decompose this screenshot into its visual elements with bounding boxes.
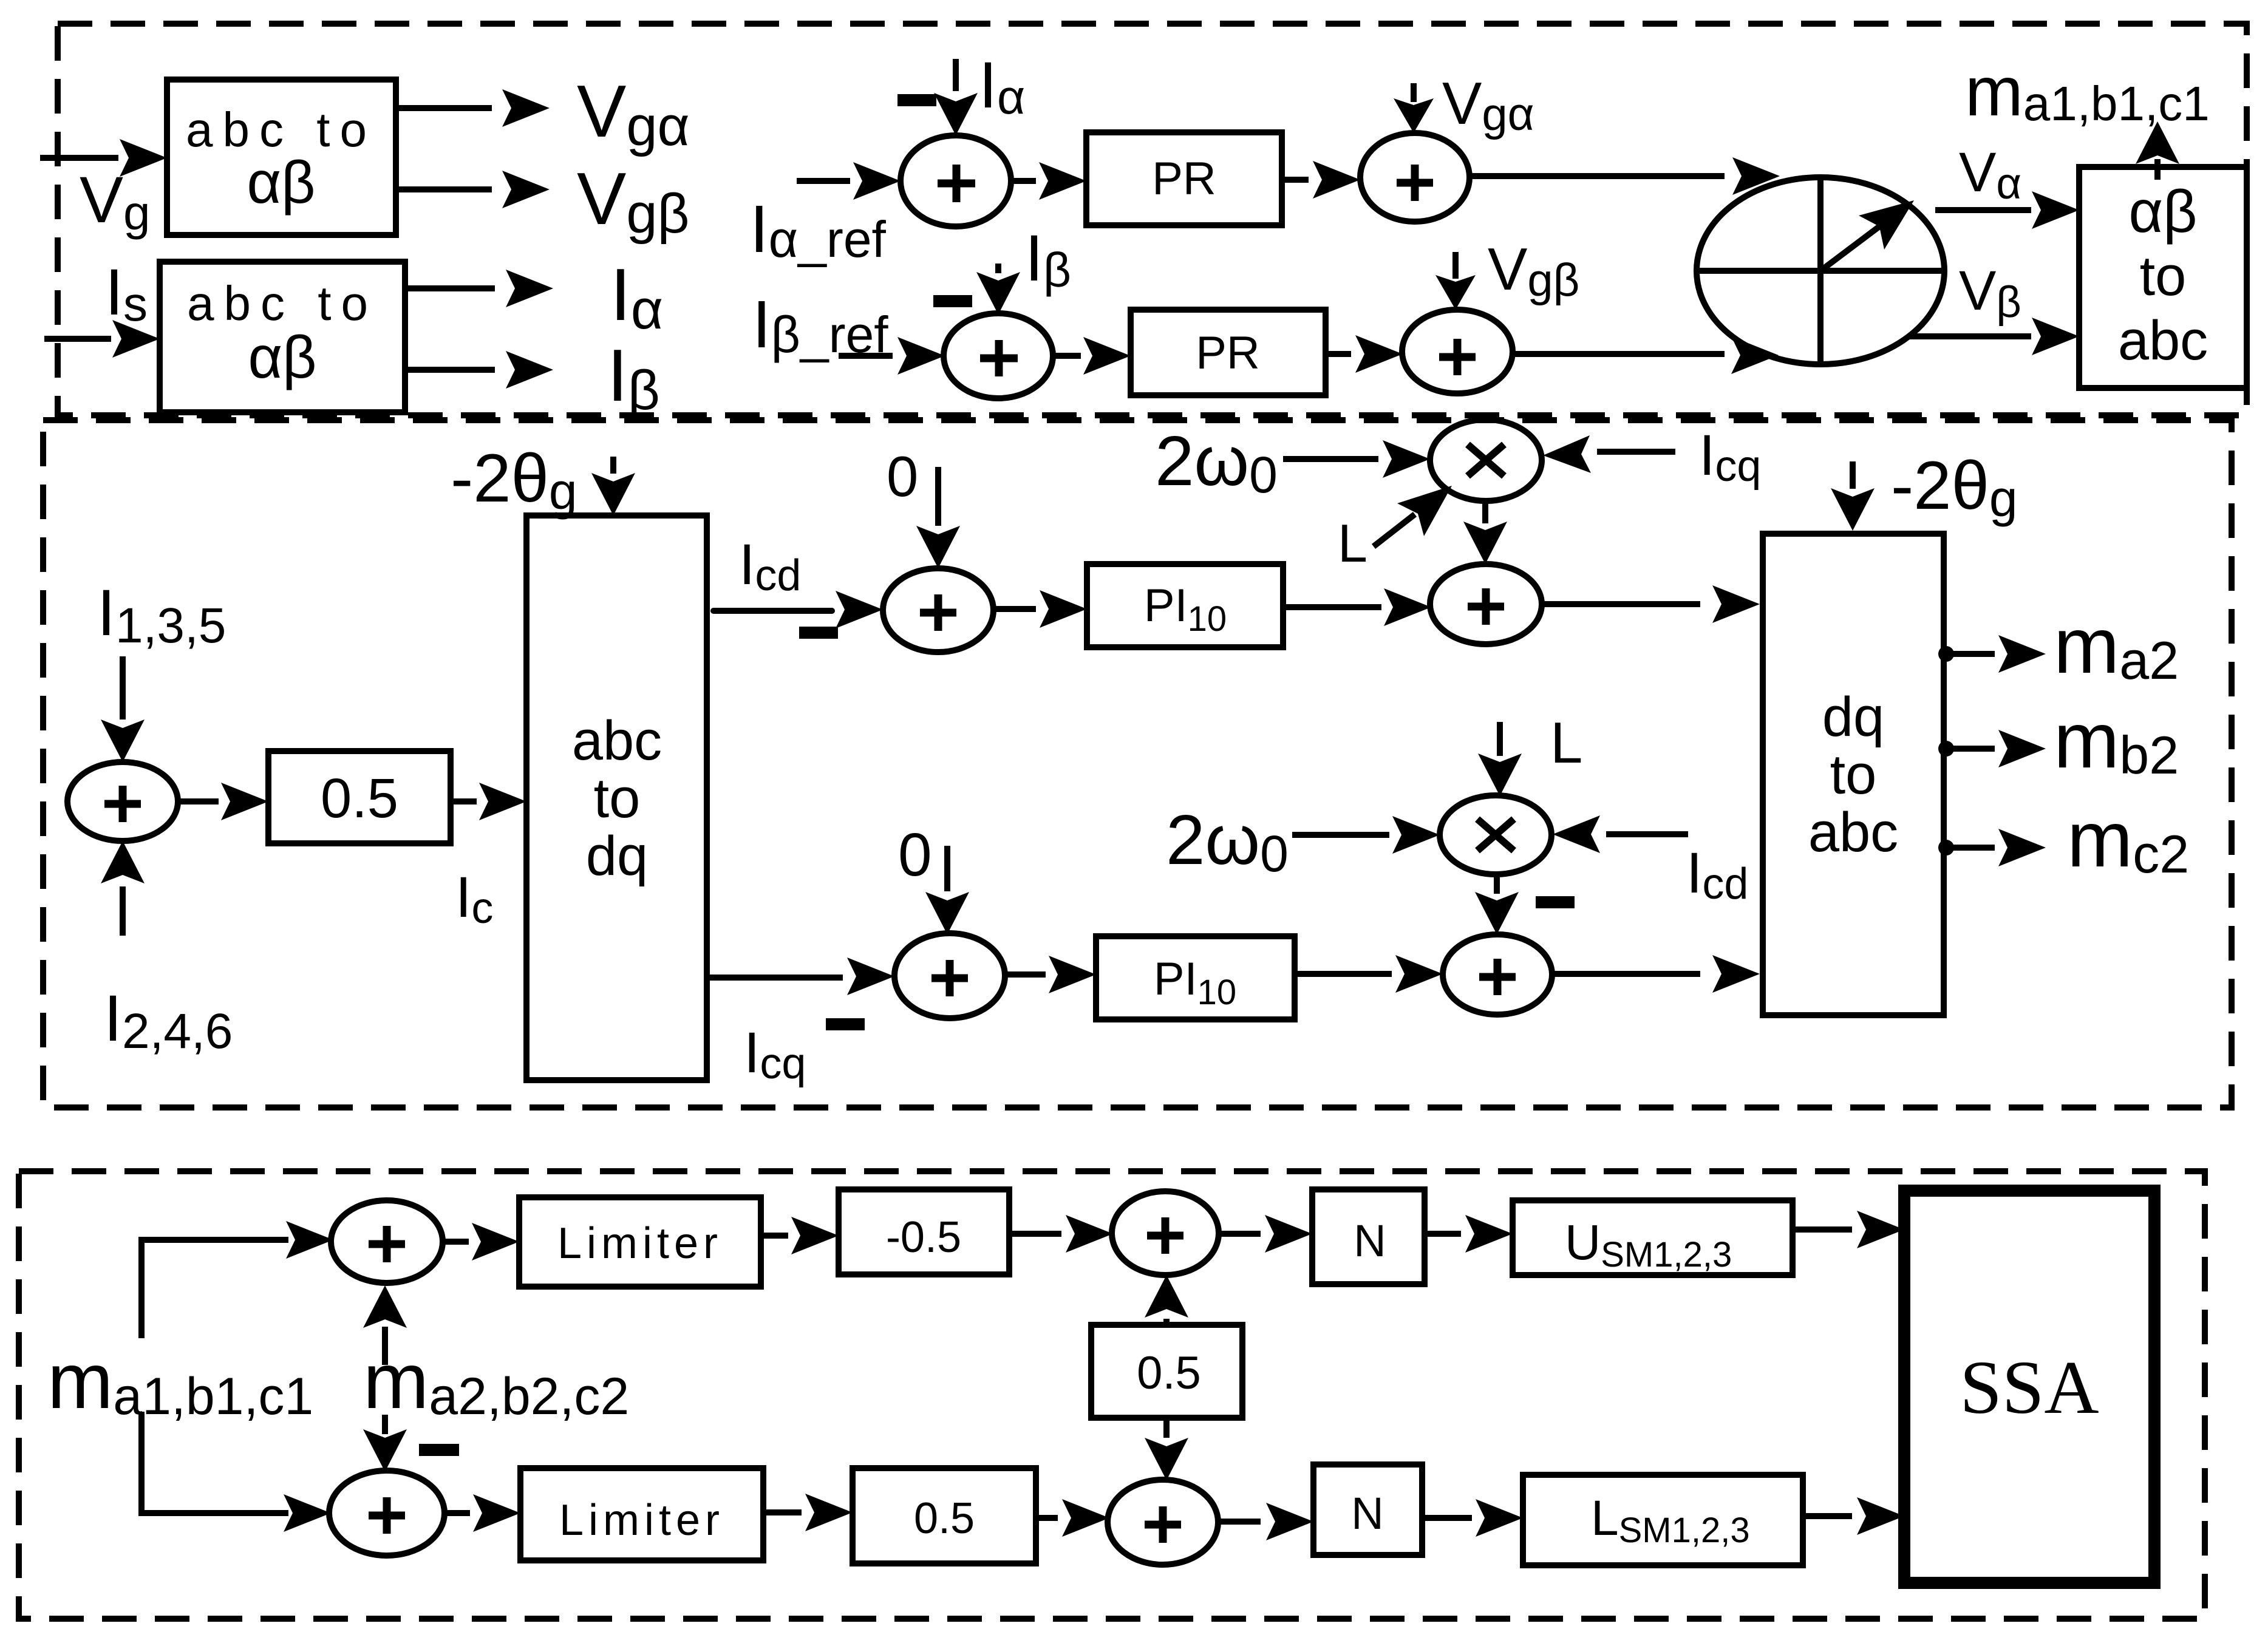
- label I246: [104, 981, 233, 1059]
- label Valpha: [1959, 141, 2021, 208]
- block LSM123: [1523, 1475, 1803, 1565]
- svg-text:-0.5: -0.5: [886, 1213, 961, 1262]
- svg-text:0.5: 0.5: [914, 1494, 975, 1543]
- wire: M1 down into SM3: [1463, 501, 1507, 564]
- svg-text:abc to: abc to: [187, 276, 378, 330]
- wire: Ib_ref input arrow: [839, 337, 945, 375]
- wire: SM4 to PI10 lower: [1005, 956, 1096, 993]
- block gain 0.5 middle: [1091, 1325, 1242, 1418]
- svg-text:0.5: 0.5: [321, 767, 398, 829]
- wire: SM5 to dq-abc block: [1552, 955, 1760, 993]
- label zero upper: [887, 444, 918, 508]
- wire: ma2 output: [1938, 635, 2046, 673]
- wire: Ib down arrow into S1b: [976, 264, 1020, 315]
- wire: PRb to S2b: [1326, 335, 1403, 373]
- minus sign below M2: [1536, 896, 1575, 908]
- label Ia above S1: [979, 48, 1025, 124]
- wire: Is input arrow: [44, 320, 160, 358]
- wire: Ia_ref input arrow: [797, 162, 901, 200]
- svg-text:αβ: αβ: [2128, 178, 2197, 245]
- wire: ma1 branch to SB3 (corner): [141, 1412, 331, 1532]
- label Ib above S1b: [1025, 221, 1071, 297]
- wire: -2theta-g down arrow into abc-dq: [591, 457, 635, 515]
- wire: M2 down into SM5: [1475, 873, 1519, 934]
- block PI10 upper: [1087, 564, 1283, 647]
- block alpha-beta to abc: [2079, 167, 2247, 388]
- label ma1,b1,c1 bottom: [47, 1336, 313, 1426]
- wire: Ia output arrow: [405, 270, 553, 307]
- block abc to dq: [526, 515, 707, 1080]
- label L lower: [1550, 710, 1582, 775]
- wire: S1b to PRb: [1053, 337, 1131, 375]
- summer S1b beta row: [944, 313, 1053, 398]
- svg-text:SSA: SSA: [1960, 1346, 2099, 1430]
- block USM123: [1513, 1200, 1793, 1275]
- minus sign at SM2: [799, 627, 838, 639]
- wire: Vgb output arrow: [396, 171, 550, 208]
- summer SM3: [1430, 564, 1542, 644]
- svg-text:αβ: αβ: [248, 324, 316, 390]
- dashed border: middle circulating-current section: [43, 420, 2232, 1107]
- label mc2: [2067, 795, 2189, 884]
- wire: Icq into M1 from right: [1543, 435, 1675, 473]
- wire: 2w0 to M2 multiplier: [1292, 816, 1440, 854]
- wire: SB2 to N upper: [1219, 1215, 1312, 1253]
- wire: mc2 output: [1938, 829, 2046, 866]
- wire: Icd into M2 from right: [1553, 815, 1688, 853]
- block PR (beta): [1131, 310, 1326, 395]
- wire: Icq output lower to SM4: [707, 958, 894, 995]
- svg-text:to: to: [1830, 744, 1877, 806]
- wire: Vga down arrow into S2: [1394, 83, 1434, 133]
- summer S2 alpha row: [1360, 133, 1469, 222]
- wire: Icd output to SM2: [713, 591, 883, 628]
- summer SB1: [331, 1200, 443, 1283]
- wire: L down arrow into M2: [1478, 722, 1522, 796]
- multiplier M2: [1440, 795, 1551, 874]
- label Vga above S2: [1442, 70, 1534, 140]
- svg-text:αβ: αβ: [247, 149, 315, 216]
- summer SM2: [883, 568, 993, 652]
- block abc to alpha-beta (current): [160, 262, 405, 412]
- summer S2b beta row: [1402, 310, 1513, 393]
- minus sign at S1b: [933, 295, 972, 307]
- svg-text:N: N: [1351, 1488, 1383, 1539]
- wire: -2theta-g down arrow into dq-abc: [1831, 461, 1875, 531]
- block PI10 lower: [1096, 936, 1295, 1019]
- label Icq lower: [744, 1021, 806, 1088]
- svg-text:Limiter: Limiter: [557, 1219, 723, 1268]
- wire: Vbeta output: [1909, 318, 2079, 355]
- svg-text:N: N: [1354, 1216, 1386, 1266]
- summer SB4: [1108, 1480, 1218, 1565]
- label Ic: [455, 865, 493, 933]
- label ma1,b1,c1 top: [1965, 53, 2210, 131]
- svg-text:0.5: 0.5: [1137, 1347, 1201, 1399]
- wire: SM1 to 0.5 block: [178, 783, 268, 820]
- vector limiter circle: [1697, 177, 1944, 364]
- label -2theta-g left: [451, 440, 577, 520]
- wire: USM to SSA: [1793, 1211, 1904, 1248]
- svg-text:to: to: [594, 767, 641, 829]
- summer SB2: [1112, 1191, 1219, 1275]
- summer SM5: [1443, 934, 1552, 1015]
- block PR (alpha): [1086, 132, 1282, 225]
- label Vgb above S2b: [1488, 236, 1579, 306]
- svg-text:0: 0: [898, 821, 932, 889]
- svg-text:L: L: [1338, 513, 1367, 573]
- wire: Limiter lower to 0.5: [763, 1494, 853, 1531]
- wire: S1 to PR: [1011, 162, 1086, 200]
- wire: SB1 to Limiter: [443, 1223, 519, 1260]
- label Ib: [607, 334, 660, 421]
- label 2w0 lower: [1166, 800, 1289, 882]
- wire: LSM to SSA: [1803, 1497, 1904, 1535]
- wire: N lower to LSM: [1422, 1499, 1523, 1537]
- label ma2,b2,c2 bottom: [363, 1336, 629, 1426]
- wire: Limiter to -0.5: [761, 1217, 839, 1254]
- block Limiter upper: [519, 1197, 761, 1287]
- summer SM1: [67, 762, 178, 841]
- label Vg: [80, 163, 151, 240]
- wire: Vg input arrow: [40, 139, 167, 177]
- wire: 0.5 down arrow into SB4: [1145, 1418, 1188, 1480]
- wire: ma2 up arrow into SB1: [363, 1285, 407, 1365]
- summer SM4: [894, 933, 1005, 1018]
- summer SB3: [329, 1471, 444, 1556]
- wire: Ia down arrow into S1: [934, 59, 978, 135]
- wire: -0.5 to SB2: [1009, 1215, 1113, 1253]
- block SSA: [1904, 1191, 2154, 1583]
- svg-text:PR: PR: [1196, 327, 1260, 379]
- svg-text:dq: dq: [1822, 686, 1884, 748]
- wire: 2w0 to M1 multiplier: [1283, 440, 1430, 478]
- label I135: [97, 576, 226, 653]
- summer S1 alpha row: [901, 135, 1011, 226]
- dashed border: top control section: [58, 24, 2247, 415]
- wire: ma1b1c1 up arrow: [2136, 121, 2179, 180]
- wire: S2 to vector circle: [1469, 157, 1780, 195]
- label mb2: [2054, 696, 2179, 785]
- wire: PR to S2: [1282, 161, 1360, 199]
- wire: zero down into SM2: [916, 467, 960, 568]
- label Is: [105, 255, 148, 331]
- svg-text:PR: PR: [1152, 153, 1216, 205]
- dashed border: bottom modulation section: [19, 1171, 2205, 1619]
- wire: mb2 output: [1938, 730, 2046, 767]
- block abc to alpha-beta (voltage): [167, 80, 396, 235]
- svg-text:L: L: [1550, 710, 1582, 775]
- wire: I246 up arrow into SM1: [101, 841, 145, 936]
- block N upper: [1312, 1189, 1425, 1284]
- wire: S2b to vector circle: [1513, 336, 1779, 374]
- label zero lower: [898, 821, 932, 889]
- wire: SB4 to N lower: [1218, 1503, 1313, 1540]
- label Icd: [739, 532, 801, 600]
- svg-text:abc: abc: [1808, 801, 1898, 863]
- block gain 0.5: [268, 751, 451, 843]
- wire: PI10 to SM3: [1283, 588, 1431, 626]
- svg-text:Limiter: Limiter: [559, 1496, 724, 1545]
- svg-text:dq: dq: [586, 825, 648, 887]
- wire: ma1 branch to SB1 (corner): [141, 1221, 333, 1338]
- wire: ma2 down arrow into SB3: [363, 1415, 407, 1472]
- label Vbeta: [1959, 260, 2021, 327]
- label Ib_ref: [752, 287, 888, 363]
- wire: 0.5 to abc-dq block: [451, 783, 526, 820]
- minus sign at SB3: [419, 1444, 459, 1456]
- wire: Vga output arrow: [396, 89, 550, 127]
- wire: L diagonal arrow into M1: [1374, 486, 1452, 546]
- wire: Valpha output: [1935, 191, 2079, 229]
- label Ia_ref: [750, 192, 887, 268]
- svg-text:to: to: [2140, 245, 2187, 307]
- block gain -0.5: [839, 1189, 1009, 1274]
- minus sign at SM4: [826, 1018, 865, 1030]
- wire: PI10 lower to SM5: [1295, 955, 1443, 993]
- wire: Ib output arrow: [405, 351, 553, 389]
- svg-text:abc: abc: [2118, 310, 2208, 372]
- wire: 0.5 lower to SB4: [1036, 1499, 1109, 1537]
- wire: zero down into SM4: [925, 846, 969, 934]
- block gain 0.5 lower: [853, 1468, 1036, 1563]
- wire: 0.5 up arrow into SB2: [1145, 1275, 1188, 1325]
- label Ia: [610, 253, 663, 341]
- block Limiter lower: [520, 1468, 763, 1560]
- label Vgb: [577, 157, 689, 245]
- wire: SM2 to PI10: [993, 590, 1087, 628]
- wire: SB3 to Limiter lower: [444, 1494, 520, 1532]
- wire: Vgb down arrow into S2b: [1435, 252, 1476, 310]
- svg-text:0: 0: [887, 444, 918, 508]
- wire: I135 down arrow into SM1: [101, 656, 145, 762]
- label 2w0 upper: [1155, 421, 1278, 503]
- label L upper: [1338, 513, 1367, 573]
- multiplier M1: [1430, 420, 1542, 501]
- label Icq right of M1: [1699, 423, 1761, 491]
- block dq to abc: [1763, 534, 1944, 1015]
- block N lower: [1313, 1464, 1422, 1555]
- label ma2: [2054, 601, 2179, 690]
- label -2theta-g right: [1891, 447, 2018, 527]
- label Vga: [577, 70, 690, 157]
- wire: N to USM: [1425, 1215, 1513, 1253]
- wire: SM3 to dq-abc block: [1542, 585, 1760, 623]
- svg-text:abc: abc: [572, 710, 662, 772]
- minus sign at S1: [897, 94, 936, 106]
- label Icd right of M2: [1686, 841, 1748, 908]
